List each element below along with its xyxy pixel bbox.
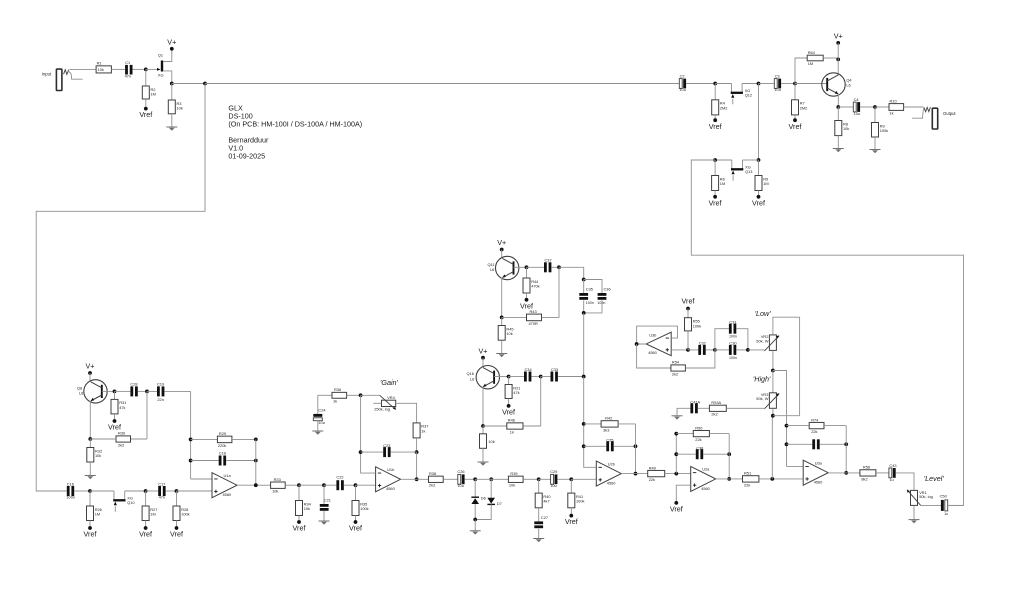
resistor R37 1k (413, 423, 428, 452)
capacitor C36 100n (584, 280, 611, 313)
capacitor C38 (676, 445, 729, 459)
wire U2a plus input to Vref (676, 485, 690, 503)
svg-text:C26: C26 (457, 469, 464, 474)
node mid column C33 (582, 375, 586, 379)
svg-text:22k: 22k (744, 482, 750, 487)
svg-text:10k: 10k (509, 483, 515, 488)
ground below C21 (319, 520, 330, 522)
resistor R6 1M (712, 160, 726, 197)
node C23 left (359, 450, 363, 454)
wire down to Q13 row (758, 84, 760, 161)
resistor R1 10k (96, 61, 111, 73)
resistor R5 1M (755, 160, 769, 197)
resistor R32 10k (87, 439, 102, 476)
wire Q11 emitter down (501, 278, 503, 318)
node R28 (175, 489, 179, 493)
svg-text:10k: 10k (843, 126, 849, 131)
svg-text:C50: C50 (940, 493, 948, 498)
svg-text:Q10: Q10 (127, 500, 135, 505)
potentiometer VR4 250k log (361, 395, 417, 423)
node R34 (297, 483, 301, 487)
node R64/V+ rail (836, 58, 840, 62)
capacitor C28 (130, 381, 137, 396)
svg-text:8k2: 8k2 (861, 476, 867, 481)
node R41 (569, 477, 573, 481)
node U3b output (635, 342, 639, 346)
node C25 right (634, 444, 638, 448)
wire U2a feedback right column (728, 434, 730, 479)
node R50 left (674, 432, 678, 436)
potentiometer VR2 50k W (756, 334, 779, 351)
Vref below R35 (354, 520, 358, 524)
capacitor C25 (584, 437, 636, 451)
wire U3b feedback loop (637, 326, 678, 344)
svg-text:R51: R51 (744, 471, 751, 476)
capacitor C32 (688, 340, 715, 355)
svg-text:1k: 1k (510, 429, 514, 434)
node R4 (713, 82, 717, 86)
ground below R9 (870, 149, 881, 151)
svg-text:'High': 'High' (753, 374, 771, 383)
node Q8 base / R31 / C28 (113, 390, 117, 394)
wire base node to C28 (115, 390, 131, 392)
svg-text:22k: 22k (811, 429, 817, 434)
wire Q16 emitter down (482, 387, 484, 426)
svg-text:2k2: 2k2 (429, 483, 435, 488)
capacitor C43 1u (889, 463, 914, 491)
wire U1a minus input (191, 478, 212, 480)
svg-text:R1: R1 (97, 61, 102, 66)
resistor R31 47k (111, 391, 126, 421)
svg-text:U3a: U3a (815, 460, 823, 465)
node C25 left (582, 444, 586, 448)
svg-text:10k: 10k (177, 106, 183, 111)
node VR2 bottom / VR3 top (771, 369, 775, 373)
resistor R21 47k (505, 377, 520, 406)
svg-text:2k2: 2k2 (118, 442, 124, 447)
resistor R29 220k (191, 431, 256, 448)
wire U3a output to R56 (828, 472, 860, 474)
wire U2a output to R51 (716, 478, 743, 480)
Vref below R27 (144, 526, 148, 530)
Vref below R31 (113, 419, 117, 423)
wire feedback to U1b output (416, 452, 418, 479)
wire node down to R30 (146, 391, 148, 439)
Vref below R34 (297, 520, 301, 524)
wire node to Q13 (743, 159, 759, 161)
op-amp U3a 4560 (803, 460, 828, 485)
wire effect return loop (691, 160, 963, 505)
svg-text:100n: 100n (66, 495, 75, 500)
node C35/C36 bottom rail (582, 311, 586, 315)
svg-text:Q1: Q1 (158, 53, 163, 58)
svg-text:L6: L6 (79, 391, 83, 396)
Vref below R41 (569, 514, 573, 518)
svg-text:50k, log: 50k, log (919, 494, 933, 499)
svg-text:C16: C16 (67, 481, 74, 486)
svg-text:R50: R50 (695, 425, 703, 430)
svg-text:10u: 10u (679, 87, 686, 92)
node U2a minus (674, 472, 678, 476)
node C37 right (557, 265, 561, 269)
wire node to Q1 gate (146, 68, 160, 70)
svg-text:100k: 100k (693, 323, 701, 328)
svg-text:100k: 100k (181, 512, 189, 517)
svg-text:4560: 4560 (701, 486, 710, 491)
Vref below R21 (507, 404, 511, 408)
svg-text:10k: 10k (488, 439, 494, 444)
wire node to node C21 (299, 484, 324, 486)
svg-text:100k: 100k (880, 128, 888, 133)
svg-text:Vref: Vref (139, 530, 152, 539)
transistor Q13 JFET switch (731, 160, 752, 181)
svg-text:U2b: U2b (608, 461, 615, 466)
Vref below R5 (757, 195, 761, 199)
capacitor C21 to ground (320, 485, 331, 521)
svg-text:Vref: Vref (565, 517, 578, 526)
capacitor C50 1u (940, 493, 964, 516)
svg-text:R53A: R53A (711, 400, 721, 405)
svg-text:10u: 10u (550, 483, 557, 488)
resistor R38 2k2 (429, 471, 458, 488)
capacitor C31 100n (715, 319, 748, 350)
wire U1b output (401, 478, 429, 480)
svg-text:C33: C33 (551, 367, 558, 372)
op-amp U1a 4560 (212, 473, 237, 498)
node main / to lower stage (203, 82, 207, 86)
svg-text:V+: V+ (167, 38, 176, 47)
svg-text:C31: C31 (729, 319, 736, 324)
svg-text:01-09-2025: 01-09-2025 (228, 152, 265, 161)
svg-text:R39: R39 (510, 471, 517, 476)
wire down mid column (583, 313, 585, 377)
capacitor C37 (527, 257, 560, 272)
node R35 (354, 483, 358, 487)
node Q11 base (525, 265, 529, 269)
svg-text:U3b: U3b (649, 332, 656, 337)
svg-text:Q13: Q13 (745, 169, 752, 174)
node feedback C18 right (254, 459, 258, 463)
resistor R39 10k (508, 471, 538, 488)
Vref below R44 (525, 298, 529, 302)
resistor R74 22k (787, 417, 847, 434)
svg-text:R29: R29 (219, 431, 226, 436)
ground below C27 (533, 538, 544, 540)
wire Q10 to node R27 (125, 490, 146, 492)
wire node to R10 (875, 106, 889, 108)
ground below R3 (166, 126, 177, 128)
resistor R28 100k (173, 491, 190, 528)
wire node to U3a feedback column (773, 371, 787, 467)
svg-text:C3: C3 (775, 74, 780, 79)
svg-text:250k, log: 250k, log (374, 407, 390, 412)
svg-text:2k2: 2k2 (672, 371, 678, 376)
svg-text:50k, W: 50k, W (756, 338, 768, 343)
ground below R45 (496, 353, 507, 355)
svg-text:U2a: U2a (702, 467, 710, 472)
resistor R34 10k (296, 485, 312, 522)
wire U2b output to R49 (621, 473, 647, 475)
node C42 left (785, 442, 789, 446)
transistor Q12 JFET switch (731, 84, 752, 105)
svg-text:R56: R56 (863, 465, 870, 470)
diode D7 (475, 498, 502, 520)
svg-text:C4: C4 (854, 97, 860, 102)
svg-text:22k: 22k (695, 437, 701, 442)
svg-text:Output: Output (943, 111, 956, 116)
resistor R40 4k7 (535, 479, 551, 521)
svg-text:V+: V+ (497, 238, 506, 247)
wire Q16 base to node (494, 376, 509, 378)
Vref below R6 (713, 195, 717, 199)
wire to ground (474, 520, 476, 531)
svg-text:VR4: VR4 (387, 395, 395, 400)
svg-text:50k, W: 50k, W (756, 396, 768, 401)
node R74 left (785, 424, 789, 428)
svg-text:10k: 10k (98, 67, 104, 72)
node feedback C18 left (189, 459, 193, 463)
wire V+ to Q11 collector (501, 250, 503, 259)
svg-text:U1b: U1b (387, 467, 394, 472)
node C38 right (727, 452, 731, 456)
svg-text:Vref: Vref (789, 122, 802, 131)
svg-text:4560: 4560 (223, 492, 232, 497)
svg-text:Vref: Vref (84, 530, 97, 539)
svg-text:Q12: Q12 (745, 93, 752, 98)
svg-text:10k: 10k (95, 453, 101, 458)
node R27 (144, 489, 148, 493)
capacitor C16 100n (66, 481, 75, 499)
node C35/C36 top rail (582, 278, 586, 282)
wire V+ to Q4 collector (837, 43, 839, 75)
svg-text:Vref: Vref (682, 297, 695, 306)
svg-text:V+: V+ (834, 32, 843, 41)
wire node to C4 (838, 106, 853, 108)
svg-text:C34: C34 (525, 367, 533, 372)
svg-text:470R: 470R (529, 321, 538, 326)
capacitor C29 10u (539, 469, 572, 488)
op-amp U2a 4560 (691, 466, 716, 491)
resistor R42 3k3 (584, 416, 636, 433)
svg-text:1M: 1M (763, 181, 768, 186)
svg-text:R54: R54 (672, 360, 680, 365)
svg-text:'Low': 'Low' (755, 309, 772, 318)
wire mid column down to U2b feedback (584, 377, 597, 468)
svg-text:4560: 4560 (648, 350, 657, 355)
ground below emitter resistor (478, 461, 489, 463)
wire C1 to node (133, 68, 146, 70)
svg-text:XG: XG (158, 72, 164, 77)
wire node to C3 (759, 83, 775, 85)
node U3a output (844, 471, 848, 475)
resistor R54 2k2 (637, 344, 715, 376)
svg-text:R33: R33 (274, 477, 281, 482)
svg-text:4k7: 4k7 (543, 499, 549, 504)
wire feedback right column (635, 424, 637, 474)
wire Q8 base to node (102, 390, 115, 392)
capacitor C17 47n (146, 481, 177, 499)
svg-text:C29: C29 (550, 469, 557, 474)
svg-text:C1: C1 (125, 60, 130, 65)
wire C16 to node R26 (74, 490, 90, 492)
svg-text:Vref: Vref (752, 198, 765, 207)
wire U2a feedback column (675, 434, 677, 474)
svg-text:22n: 22n (157, 397, 164, 402)
ground below diodes (470, 530, 481, 532)
svg-text:4560: 4560 (607, 481, 616, 486)
svg-text:10k: 10k (272, 489, 278, 494)
Vref below R28 (175, 526, 179, 530)
wire VR2 bottom to node (772, 350, 774, 370)
wire node to R39 (491, 478, 508, 480)
svg-text:100n: 100n (729, 334, 737, 338)
wire Q8 emitter down (89, 401, 91, 439)
svg-text:1k: 1k (890, 111, 894, 116)
ground below C24 (312, 430, 323, 432)
svg-text:C18: C18 (219, 450, 226, 455)
node U1a output / feedback (254, 483, 258, 487)
wire node to Q4 base (795, 83, 827, 85)
resistor R44 470k (523, 267, 540, 300)
node VR3 bottom (771, 414, 775, 418)
wire V+ to Q16 collector (482, 358, 484, 368)
wire node to VR2 top column (773, 415, 800, 417)
wire node to D7 (475, 479, 491, 498)
wire U3b plus input (671, 349, 688, 351)
output jack J2 (912, 107, 956, 129)
wire R1 to C1 (111, 68, 125, 70)
wire node to Q12 (715, 83, 731, 85)
node Q1 source / R3 (170, 82, 174, 86)
node Q4 emitter (836, 105, 840, 109)
wire C37 node right and down (559, 267, 584, 279)
svg-text:(On PCB: HM-100I / DS-100A / H: (On PCB: HM-100I / DS-100A / HM-100A) (228, 119, 362, 128)
resistor R8 10k (835, 107, 850, 149)
node R42 left (582, 422, 586, 426)
svg-text:C17: C17 (158, 481, 165, 486)
capacitor C3 10u (774, 74, 781, 92)
node R51 to tone column (770, 477, 774, 481)
node U2b output (634, 472, 638, 476)
node C38 left (674, 452, 678, 456)
svg-text:C2: C2 (680, 74, 685, 79)
resistor R64 1M (795, 50, 838, 84)
svg-text:R74: R74 (811, 417, 819, 422)
node R40 (537, 477, 541, 481)
resistor R46 1k (483, 418, 541, 435)
svg-text:D7: D7 (497, 501, 502, 506)
svg-text:R10: R10 (890, 98, 898, 103)
node VR2 wiper (746, 348, 750, 352)
svg-text:C21: C21 (324, 498, 331, 503)
svg-text:Vref: Vref (139, 110, 152, 119)
capacitor C24 10u to ground (313, 395, 326, 431)
resistor R55 100k (685, 309, 702, 350)
title text block (228, 104, 362, 161)
resistor R2 1M (142, 69, 156, 108)
node Q16 emitter (481, 424, 485, 428)
transistor Q4 (822, 73, 853, 96)
node D6 (473, 477, 477, 481)
diode D6 (471, 479, 485, 519)
wire node to U1b plus (356, 484, 376, 486)
svg-text:47k: 47k (513, 390, 519, 395)
Vref above R55 (682, 297, 695, 311)
svg-text:C22: C22 (336, 474, 343, 479)
svg-text:Vref: Vref (293, 524, 306, 533)
Vref below U2a (674, 501, 678, 505)
wire VR1 wiper to C40 (921, 504, 942, 506)
capacitor C1 47n (125, 60, 133, 78)
Vref below R7 (793, 118, 797, 122)
svg-text:100k: 100k (576, 499, 584, 504)
svg-text:100n: 100n (586, 301, 594, 305)
svg-text:R49: R49 (649, 465, 656, 470)
svg-text:1k: 1k (333, 398, 337, 403)
node U1b output (415, 477, 419, 481)
resistor R7 2M2 (792, 84, 808, 121)
potentiometer VR1 50k log (907, 490, 933, 506)
ground left of C41A (672, 415, 683, 417)
transistor Q8 (77, 380, 107, 403)
node feedback R29 left (189, 438, 193, 442)
svg-text:100k: 100k (360, 506, 368, 511)
svg-text:4560: 4560 (814, 480, 823, 485)
svg-text:3k3: 3k3 (603, 427, 609, 432)
svg-text:V+: V+ (479, 346, 488, 355)
svg-text:22k: 22k (649, 477, 655, 482)
svg-text:R38: R38 (429, 471, 436, 476)
resistor R9 100k (872, 107, 889, 150)
wire C2 to node R4 (686, 83, 715, 85)
wire Q13 to node R6 (715, 159, 732, 161)
svg-text:1M: 1M (808, 61, 813, 66)
svg-text:C24: C24 (318, 407, 326, 412)
wire C19 node down to U1a feedback (190, 391, 192, 479)
svg-text:Vref: Vref (709, 198, 722, 207)
wire VR2-VR3 (772, 371, 774, 393)
wire U1a output (237, 484, 271, 486)
wire long feed to bottom-left stage (36, 84, 205, 492)
capacitor C23 (361, 443, 417, 457)
input jack J1 (42, 69, 83, 90)
svg-text:10u: 10u (457, 483, 464, 488)
capacitor C18 (191, 450, 256, 465)
svg-text:L6: L6 (846, 82, 850, 87)
resistor R36 1k (318, 387, 361, 403)
svg-text:Vref: Vref (670, 505, 683, 514)
node C32/C30/C31 (713, 348, 717, 352)
svg-text:L6: L6 (490, 267, 494, 272)
wire input to R1 (69, 68, 96, 70)
resistor R26 1M (87, 491, 102, 528)
wire node down to R46 (540, 377, 542, 427)
node D7 top (489, 477, 493, 481)
wire V+ to Q8 collector (89, 373, 91, 382)
svg-text:U1a: U1a (224, 473, 232, 478)
node to Q13 branch (757, 82, 761, 86)
svg-text:C28: C28 (130, 381, 137, 386)
svg-text:R43: R43 (530, 309, 537, 314)
op-amp U3b 4560 buffer (646, 332, 671, 356)
svg-text:C35: C35 (586, 286, 593, 291)
resistor R50 22k (676, 425, 729, 442)
svg-text:R36: R36 (334, 387, 341, 392)
svg-text:D6: D6 (481, 496, 486, 501)
svg-text:10u: 10u (854, 111, 861, 116)
capacitor C26 10u (457, 469, 475, 488)
svg-text:R30: R30 (118, 431, 126, 436)
